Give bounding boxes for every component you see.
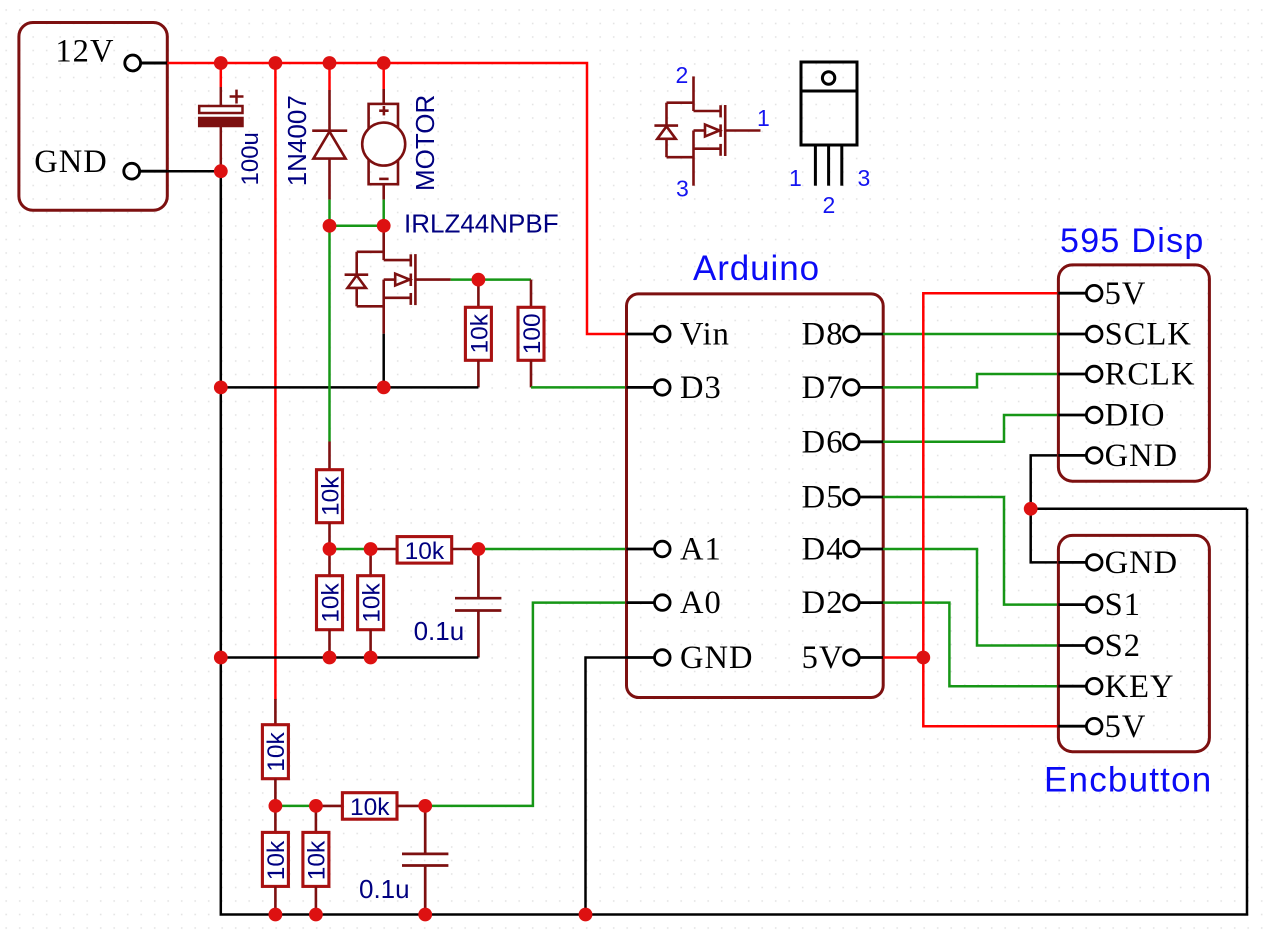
svg-text:10k: 10k <box>317 583 344 623</box>
wire drain node green <box>330 225 384 228</box>
resistor U2 pin GND <box>1058 448 1102 464</box>
connector P1 pin GND <box>124 163 168 179</box>
resistor R10 10k horizontal <box>316 793 425 820</box>
resistor R6 10k horizontal <box>371 537 479 564</box>
svg-text:12V: 12V <box>55 34 114 70</box>
op-amp U1 pin D7 <box>844 380 884 396</box>
resistor R2 100 gate series <box>518 280 544 388</box>
wire 595 GND black <box>1031 455 1059 562</box>
svg-text:SCLK: SCLK <box>1105 317 1192 353</box>
svg-text:D3: D3 <box>680 370 722 406</box>
wire D7 to RCLK green <box>883 374 1058 387</box>
wire GND branch to right edge <box>1031 508 1247 511</box>
svg-text:S1: S1 <box>1105 587 1141 623</box>
svg-text:D4: D4 <box>802 532 844 568</box>
svg-text:Encbutton: Encbutton <box>1044 761 1212 800</box>
svg-text:GND: GND <box>34 144 108 180</box>
package TO-220 drawing <box>801 62 857 186</box>
resistor U2 pin RCLK <box>1058 366 1102 382</box>
resistor U3 pin S2 <box>1058 638 1102 654</box>
svg-text:100u: 100u <box>237 132 264 185</box>
op-amp U1 pin A0 <box>627 595 671 611</box>
wire D4 to S2 green <box>883 549 1058 646</box>
wire D5 to S1 green <box>883 497 1058 605</box>
svg-text:5V: 5V <box>1105 276 1147 312</box>
svg-text:GND: GND <box>1105 438 1179 474</box>
svg-text:DIO: DIO <box>1105 398 1166 434</box>
transistor Q2 symbol <box>654 76 760 185</box>
resistor R8 10k <box>262 806 288 915</box>
resistor U2 pin SCLK <box>1058 326 1102 342</box>
op-amp U1 pin D6 <box>844 434 884 450</box>
resistor R3 10k <box>317 442 343 550</box>
resistor R1 10k gate pulldown <box>465 280 491 388</box>
svg-text:1: 1 <box>789 165 802 191</box>
svg-text:10k: 10k <box>304 840 331 880</box>
wire GND from connector <box>167 170 221 173</box>
resistor U3 pin 5V <box>1058 718 1102 734</box>
svg-text:KEY: KEY <box>1105 669 1175 705</box>
wire 12V to D1 <box>328 63 331 90</box>
op-amp U1 pin D3 <box>627 380 671 396</box>
resistor R7 10k <box>262 699 288 806</box>
op-amp U1 pin 5V <box>844 650 884 666</box>
svg-text:D8: D8 <box>802 317 844 353</box>
wire D8 to SCLK green <box>883 333 1058 336</box>
connector P1 pin 12V <box>125 55 168 71</box>
resistor U2 pin DIO <box>1058 407 1102 423</box>
svg-text:D2: D2 <box>802 585 844 621</box>
wire 5V red to encoder <box>923 658 1058 727</box>
svg-text:D6: D6 <box>802 424 844 460</box>
svg-text:1: 1 <box>757 105 770 131</box>
diode D1 1N4007 <box>312 90 347 200</box>
svg-text:10k: 10k <box>317 476 344 516</box>
resistor U3 Encbutton box <box>1058 535 1209 751</box>
capacitor C1 100u <box>199 87 243 171</box>
wire GND left vertical <box>221 171 1247 914</box>
wire GND row under mosfet <box>221 386 479 389</box>
svg-text:0.1u: 0.1u <box>359 874 410 904</box>
svg-text:10k: 10k <box>350 794 390 821</box>
motor M1 <box>362 89 405 200</box>
transistor Q1 IRLZ44N <box>345 226 451 334</box>
wire A1 node green <box>330 548 371 551</box>
capacitor C3 0.1u <box>402 806 448 915</box>
wire D1 anode green <box>328 200 331 226</box>
svg-text:3: 3 <box>676 176 689 202</box>
svg-text:A1: A1 <box>680 532 722 568</box>
resistor U3 pin KEY <box>1058 678 1102 694</box>
svg-text:5V: 5V <box>802 640 844 676</box>
svg-text:MOTOR: MOTOR <box>410 95 440 191</box>
svg-text:10k: 10k <box>405 538 445 565</box>
wire A0 node green <box>275 805 316 808</box>
svg-text:595 Disp: 595 Disp <box>1060 222 1205 260</box>
wire D6 to DIO green <box>883 415 1058 442</box>
svg-text:GND: GND <box>680 640 754 676</box>
op-amp U1 pin Vin <box>627 326 671 342</box>
wire 12V to C1 <box>220 63 223 87</box>
wire 12V top bus <box>167 63 626 334</box>
wire A1 divider input green <box>328 226 331 442</box>
resistor U3 pin S1 <box>1058 597 1102 613</box>
wire D3 green <box>531 386 627 389</box>
op-amp U1 pin D5 <box>844 489 884 505</box>
node junction dots <box>214 56 1038 921</box>
svg-text:D7: D7 <box>802 370 844 406</box>
svg-text:Vin: Vin <box>680 317 730 353</box>
capacitor C2 0.1u <box>455 549 501 658</box>
op-amp U1 Arduino box <box>627 294 884 698</box>
resistor U2 595 Disp box <box>1058 265 1209 481</box>
svg-text:Arduino: Arduino <box>693 249 820 288</box>
svg-text:1N4007: 1N4007 <box>282 95 312 186</box>
resistor U3 pin GND <box>1058 555 1102 571</box>
wire 12V to M1 <box>382 63 385 89</box>
connector P1 box <box>19 23 167 211</box>
wire D2 to KEY green <box>883 603 1058 687</box>
resistor U2 pin 5V <box>1058 285 1102 301</box>
svg-text:A0: A0 <box>680 585 722 621</box>
svg-text:100: 100 <box>519 313 546 354</box>
wire 12V branch red vertical to R5 <box>274 63 277 700</box>
svg-text:10k: 10k <box>263 840 290 880</box>
wire Q1 gate green <box>451 278 531 281</box>
svg-text:GND: GND <box>1105 545 1179 581</box>
op-amp U1 pin D8 <box>844 326 884 342</box>
svg-text:0.1u: 0.1u <box>414 616 465 646</box>
svg-text:2: 2 <box>676 62 689 88</box>
svg-text:D5: D5 <box>802 480 844 516</box>
wire Q1 source black <box>382 334 385 388</box>
svg-text:10k: 10k <box>466 313 493 353</box>
svg-text:RCLK: RCLK <box>1105 357 1196 393</box>
wire GND row A1 network <box>221 656 479 659</box>
wire 5V red net <box>883 293 1058 657</box>
svg-text:10k: 10k <box>358 583 385 623</box>
op-amp U1 pin D4 <box>844 541 884 557</box>
wire M1 minus green <box>382 200 385 226</box>
op-amp U1 pin A1 <box>627 541 671 557</box>
wire arduino GND black <box>586 658 627 915</box>
svg-text:10k: 10k <box>263 732 290 772</box>
wire A1 to arduino green <box>478 548 626 551</box>
wire A0 to arduino green <box>425 603 626 806</box>
svg-text:3: 3 <box>858 165 871 191</box>
op-amp U1 pin GND <box>627 650 671 666</box>
svg-text:S2: S2 <box>1105 628 1141 664</box>
svg-text:5V: 5V <box>1105 709 1147 745</box>
svg-text:2: 2 <box>823 192 836 218</box>
resistor R4 10k <box>317 549 343 658</box>
op-amp U1 pin D2 <box>844 595 884 611</box>
svg-text:IRLZ44NPBF: IRLZ44NPBF <box>404 209 559 239</box>
resistor R5 10k <box>358 549 384 658</box>
resistor R9 10k <box>303 806 329 915</box>
